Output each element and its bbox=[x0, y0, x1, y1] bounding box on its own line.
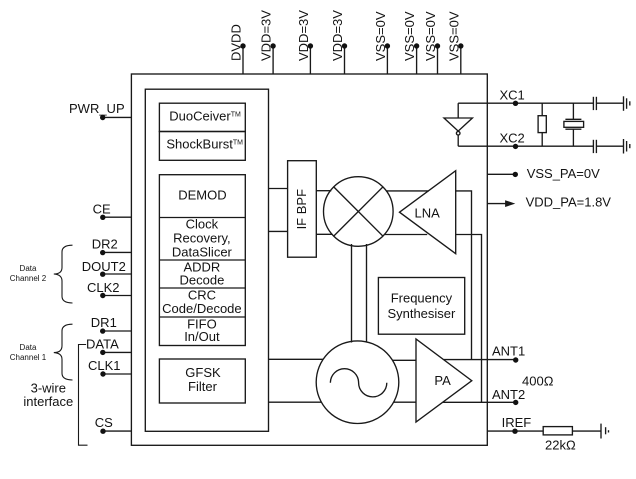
svg-text:VDD=3V: VDD=3V bbox=[259, 10, 274, 61]
3-wire interface bracket bbox=[79, 345, 88, 446]
node VSS4 dot bbox=[458, 43, 463, 48]
svg-text:DVDD: DVDD bbox=[229, 24, 244, 61]
node DR2 dot bbox=[100, 250, 105, 255]
capacitor XC2 bbox=[592, 140, 594, 153]
node CE dot bbox=[100, 215, 105, 220]
wire mixer to oscillator LO left bbox=[351, 244, 353, 343]
svg-text:IREF: IREF bbox=[502, 415, 532, 430]
svg-text:VDD=3V: VDD=3V bbox=[296, 10, 311, 61]
svg-text:XC2: XC2 bbox=[500, 131, 525, 146]
svg-text:DuoCeiverTM: DuoCeiverTM bbox=[169, 108, 241, 123]
wire VSS_PA bbox=[487, 173, 515, 175]
svg-text:22kΩ: 22kΩ bbox=[545, 438, 576, 453]
pin VSS4 wire bbox=[460, 46, 462, 74]
node XC1 dot bbox=[513, 101, 518, 106]
wire ANT2 bbox=[443, 401, 516, 403]
stack divider ADDR/CRC bbox=[159, 287, 245, 289]
svg-text:Data: Data bbox=[20, 264, 37, 273]
svg-text:DATA: DATA bbox=[86, 336, 119, 351]
wire IF BPF to mixer upper bbox=[316, 190, 331, 192]
svg-text:Decode: Decode bbox=[179, 273, 224, 288]
svg-text:ANT1: ANT1 bbox=[492, 343, 525, 358]
wire oscillator to PA upper bbox=[392, 359, 416, 361]
svg-text:DR1: DR1 bbox=[91, 315, 117, 330]
node CS dot bbox=[100, 429, 105, 434]
svg-text:LNA: LNA bbox=[415, 206, 441, 221]
crystal inverter bbox=[444, 118, 472, 131]
node VSS2 dot bbox=[414, 43, 419, 48]
svg-text:DOUT2: DOUT2 bbox=[82, 259, 126, 274]
svg-text:PA: PA bbox=[434, 373, 451, 388]
wire DATA bbox=[103, 351, 132, 353]
node ANT2 dot bbox=[513, 400, 518, 405]
wire XC2 bbox=[458, 145, 593, 147]
svg-text:Clock: Clock bbox=[186, 217, 219, 232]
wire LNA to ANT2 riser bbox=[456, 235, 482, 403]
resistor 22k bbox=[543, 427, 572, 435]
wire oscillator to PA lower bbox=[393, 401, 416, 403]
wire DR2 bbox=[103, 251, 132, 253]
svg-text:PWR_UP: PWR_UP bbox=[69, 101, 125, 116]
node DR1 dot bbox=[100, 328, 105, 333]
svg-text:VSS_PA=0V: VSS_PA=0V bbox=[527, 166, 600, 181]
svg-text:DR2: DR2 bbox=[92, 237, 118, 252]
pin VSS3 wire bbox=[437, 46, 439, 74]
svg-text:VSS=0V: VSS=0V bbox=[373, 11, 388, 61]
wire digital to oscillator lower bbox=[268, 401, 321, 403]
node PWR_UP dot bbox=[100, 115, 105, 120]
oscillator VCO circle bbox=[316, 341, 399, 424]
stack divider Clock/ADDR bbox=[159, 259, 245, 261]
svg-text:CS: CS bbox=[95, 415, 113, 430]
wire mixer to LNA lower bbox=[384, 234, 427, 236]
ground IREF bbox=[600, 424, 602, 439]
node CLK1 dot bbox=[100, 371, 105, 376]
crystal X1 bbox=[572, 103, 574, 119]
wire VDD_PA arrow bbox=[487, 203, 506, 205]
node DATA dot bbox=[100, 350, 105, 355]
wire DR1 bbox=[103, 330, 132, 332]
wire mixer to LNA upper bbox=[386, 190, 429, 192]
Frequency Synthesiser box bbox=[378, 278, 464, 335]
svg-text:VSS=0V: VSS=0V bbox=[423, 11, 438, 61]
wire resistor to ground bbox=[572, 430, 600, 432]
svg-text:DEMOD: DEMOD bbox=[178, 187, 226, 202]
wire IREF bbox=[487, 430, 543, 432]
wire CLK1 bbox=[103, 373, 132, 375]
node VDD1 dot bbox=[270, 43, 275, 48]
pin VDD2 wire bbox=[309, 46, 311, 74]
svg-text:IF BPF: IF BPF bbox=[294, 189, 309, 230]
DEMOD / baseband stack box bbox=[159, 175, 245, 346]
brace data channel 1 bbox=[54, 324, 73, 380]
svg-text:CE: CE bbox=[93, 201, 111, 216]
node VSS1 dot bbox=[385, 43, 390, 48]
LNA amplifier bbox=[400, 171, 456, 254]
pin VDD3 wire bbox=[344, 46, 346, 74]
DuoCeiver block bbox=[159, 103, 245, 131]
capacitor XC1 bbox=[592, 97, 594, 110]
ShockBurst block bbox=[159, 132, 245, 161]
wire LNA to ANT1 riser bbox=[456, 191, 472, 360]
wire digital to IF BPF upper bbox=[268, 188, 287, 190]
svg-text:VDD_PA=1.8V: VDD_PA=1.8V bbox=[526, 194, 612, 209]
svg-text:XC1: XC1 bbox=[500, 88, 525, 103]
pin VDD1 wire bbox=[272, 46, 274, 74]
node XC2 dot bbox=[513, 144, 518, 149]
svg-text:Frequency: Frequency bbox=[391, 291, 453, 306]
chip outline U1 bbox=[131, 74, 487, 445]
brace data channel 2 bbox=[54, 245, 73, 303]
svg-text:Channel 1: Channel 1 bbox=[10, 353, 47, 362]
node IREF dot bbox=[512, 429, 517, 434]
svg-text:Channel 2: Channel 2 bbox=[10, 274, 47, 283]
stack divider CRC/FIFO bbox=[159, 316, 245, 318]
svg-text:Filter: Filter bbox=[188, 379, 218, 394]
svg-text:interface: interface bbox=[23, 394, 73, 409]
node ANT1 dot bbox=[513, 357, 518, 362]
wire digital to oscillator upper bbox=[268, 358, 323, 360]
svg-text:In/Out: In/Out bbox=[184, 329, 220, 344]
node DVDD dot bbox=[240, 43, 245, 48]
svg-text:ANT2: ANT2 bbox=[492, 387, 525, 402]
ground XC1 bbox=[623, 96, 625, 111]
pin VSS1 wire bbox=[386, 46, 388, 74]
wire CE bbox=[103, 216, 132, 218]
wire CS bbox=[103, 430, 132, 432]
node DOUT2 dot bbox=[100, 272, 105, 277]
PA amplifier bbox=[416, 339, 472, 422]
wire ANT1 bbox=[444, 359, 516, 361]
node CLK2 dot bbox=[100, 293, 105, 298]
svg-text:400Ω: 400Ω bbox=[522, 373, 554, 388]
svg-text:Code/Decode: Code/Decode bbox=[162, 301, 242, 316]
resistor crystal bias bbox=[538, 116, 546, 133]
pin VSS2 wire bbox=[416, 46, 418, 74]
svg-text:GFSK: GFSK bbox=[185, 365, 221, 380]
wire DOUT2 bbox=[103, 273, 132, 275]
svg-text:VSS=0V: VSS=0V bbox=[446, 11, 461, 61]
svg-text:VSS=0V: VSS=0V bbox=[402, 11, 417, 61]
wire CLK2 bbox=[103, 295, 132, 297]
wire IF BPF to mixer lower bbox=[316, 233, 332, 235]
wire PWR_UP bbox=[103, 116, 132, 118]
pin DVDD wire bbox=[242, 46, 244, 74]
digital block box bbox=[145, 89, 268, 431]
node VSS_PA dot bbox=[513, 172, 518, 177]
IF BPF box bbox=[288, 161, 317, 258]
node VSS3 dot bbox=[435, 43, 440, 48]
svg-text:CLK2: CLK2 bbox=[87, 280, 120, 295]
svg-text:Synthesiser: Synthesiser bbox=[387, 306, 456, 321]
svg-text:Recovery,: Recovery, bbox=[173, 231, 231, 246]
wire XC1 bbox=[458, 102, 593, 104]
stack divider DEMOD/Clock bbox=[159, 217, 245, 219]
wire mixer to oscillator LO right bbox=[366, 244, 368, 343]
svg-text:Data: Data bbox=[20, 343, 37, 352]
svg-text:DataSlicer: DataSlicer bbox=[172, 244, 233, 259]
node VDD3 dot bbox=[342, 43, 347, 48]
wire digital to IF BPF lower bbox=[268, 230, 287, 232]
svg-text:CLK1: CLK1 bbox=[88, 358, 121, 373]
node VDD2 dot bbox=[308, 43, 313, 48]
mixer circle bbox=[324, 177, 394, 247]
ground XC2 bbox=[623, 139, 625, 154]
svg-text:ShockBurstTM: ShockBurstTM bbox=[166, 136, 243, 151]
svg-text:VDD=3V: VDD=3V bbox=[330, 10, 345, 61]
GFSK Filter box bbox=[159, 359, 245, 403]
